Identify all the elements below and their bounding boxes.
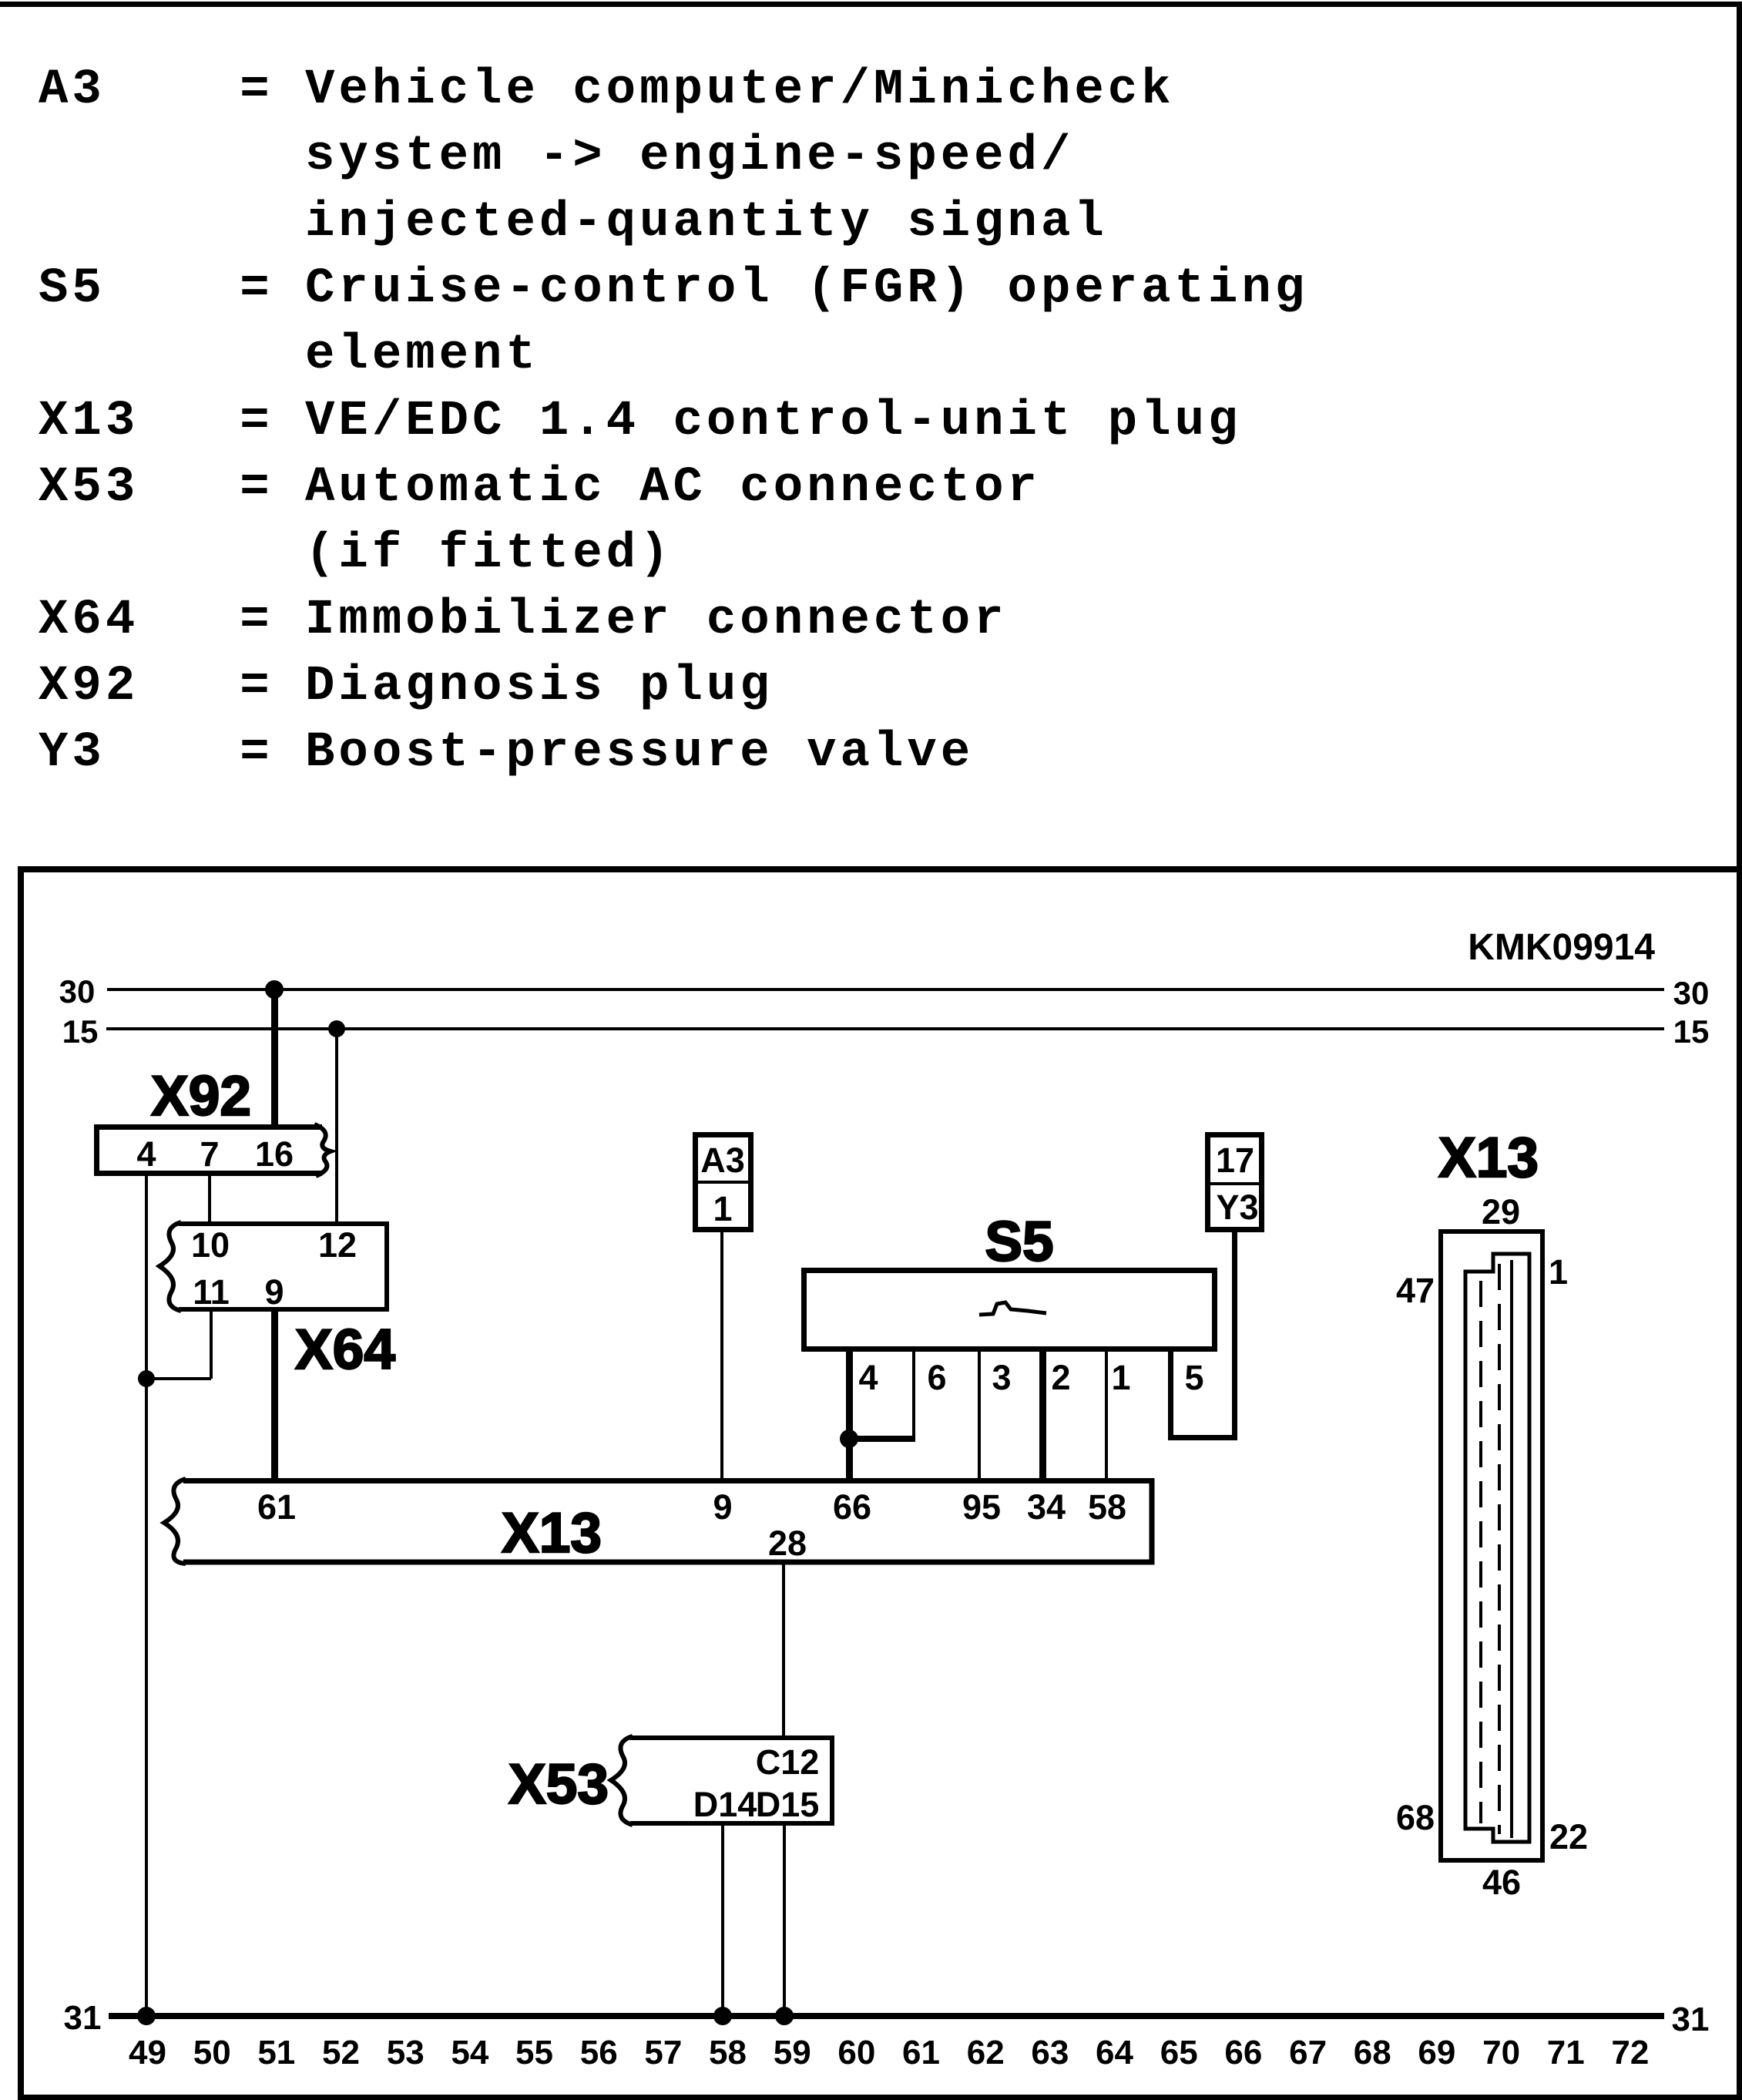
wire X64 pin11 jog left: [146, 1377, 211, 1380]
svg-text:72: 72: [1611, 2034, 1649, 2071]
svg-text:X13: X13: [1438, 1127, 1539, 1189]
svg-text:Cruise-control (FGR) operating: Cruise-control (FGR) operating: [305, 261, 1308, 317]
page top border: [0, 2, 1742, 7]
wire X53 D15 to net31: [783, 1826, 786, 2016]
svg-text:95: 95: [962, 1487, 1001, 1527]
svg-text:69: 69: [1418, 2034, 1455, 2071]
svg-text:=: =: [240, 725, 273, 781]
svg-text:6: 6: [927, 1358, 946, 1397]
svg-text:VE/EDC 1.4 control-unit plug: VE/EDC 1.4 control-unit plug: [305, 394, 1241, 449]
vehicle computer connector A3 box: [696, 1135, 751, 1230]
svg-text:1: 1: [1549, 1252, 1568, 1292]
svg-text:A3: A3: [700, 1141, 745, 1180]
svg-text:58: 58: [1088, 1487, 1126, 1527]
X13 plug inner dashed line B: [1498, 1264, 1501, 1834]
svg-text:X13: X13: [39, 394, 139, 449]
svg-text:D15: D15: [756, 1785, 820, 1824]
svg-text:29: 29: [1482, 1192, 1520, 1231]
svg-text:31: 31: [64, 1999, 102, 2037]
net 15 bus line: [106, 1027, 1664, 1030]
X53 torn left edge: [611, 1736, 633, 1825]
svg-text:(if fitted): (if fitted): [305, 526, 673, 582]
svg-text:59: 59: [774, 2034, 811, 2071]
svg-text:=: =: [240, 460, 273, 516]
wire net30 to X92 pin 16 (thick): [271, 988, 278, 1127]
svg-text:56: 56: [580, 2034, 618, 2071]
wire X53 D14 to net31: [721, 1826, 724, 2016]
X92 box: [97, 1127, 323, 1174]
wire X92 pin7 to X64 pin10: [208, 1176, 211, 1221]
X13 plug inner solid line: [1510, 1260, 1513, 1838]
X13 plug outer outline: [1441, 1231, 1542, 1860]
svg-text:15: 15: [1673, 1013, 1710, 1050]
svg-text:S5: S5: [39, 261, 106, 317]
X13 plug inner keyed outline: [1465, 1254, 1529, 1842]
svg-text:X64: X64: [295, 1319, 395, 1381]
X13 plug inner dashed line A: [1479, 1281, 1482, 1823]
svg-text:68: 68: [1354, 2034, 1391, 2071]
svg-text:10: 10: [191, 1225, 230, 1265]
A3 box divider: [693, 1181, 754, 1184]
svg-text:54: 54: [451, 2034, 488, 2071]
junction dot on net 30: [265, 980, 284, 999]
svg-text:2: 2: [1051, 1358, 1070, 1397]
svg-text:62: 62: [967, 2034, 1005, 2071]
boost-pressure valve connector 17/Y3 box: [1208, 1135, 1262, 1230]
net 30 bus line: [107, 988, 1664, 991]
svg-text:51: 51: [257, 2034, 295, 2071]
svg-text:46: 46: [1482, 1863, 1521, 1902]
svg-text:22: 22: [1549, 1817, 1588, 1856]
svg-text:47: 47: [1396, 1271, 1435, 1310]
svg-text:X53: X53: [39, 460, 139, 516]
S5 pin5 stub (thick): [1168, 1352, 1173, 1440]
svg-text:34: 34: [1027, 1487, 1066, 1527]
S5 pin 4 stub+wire to X13 pin66 (thick): [846, 1352, 853, 1478]
X53 box: [630, 1738, 832, 1823]
svg-text:element: element: [305, 328, 539, 383]
svg-text:12: 12: [318, 1225, 357, 1265]
svg-text:61: 61: [902, 2034, 940, 2071]
wire X64 pin9 to X13 pin61 (thick): [271, 1312, 278, 1478]
net 31 bus line: [109, 2013, 1664, 2019]
svg-text:65: 65: [1160, 2034, 1198, 2071]
svg-text:Y3: Y3: [1216, 1188, 1258, 1227]
S5 switch squiggle: [979, 1302, 1046, 1315]
svg-text:49: 49: [129, 2034, 166, 2071]
svg-text:11: 11: [193, 1272, 230, 1312]
wire A3 pin1 to X13 pin9: [720, 1232, 723, 1478]
svg-text:system -> engine-speed/: system -> engine-speed/: [305, 129, 1074, 184]
svg-text:57: 57: [644, 2034, 682, 2071]
junction dot net31 / X53 D14 wire: [713, 2007, 732, 2025]
wire net15 to X64 pin 12: [335, 1027, 338, 1223]
diagram frame top border: [18, 866, 1742, 872]
svg-text:53: 53: [387, 2034, 425, 2071]
S5 box: [804, 1271, 1215, 1349]
wire Y3 down (thick): [1232, 1232, 1237, 1440]
svg-text:=: =: [240, 62, 273, 118]
svg-text:66: 66: [1224, 2034, 1262, 2071]
junction dot on net 15: [328, 1020, 345, 1037]
svg-text:5: 5: [1184, 1358, 1203, 1397]
junction dot net31 / X53 D15 wire: [775, 2007, 794, 2025]
svg-text:9: 9: [264, 1272, 284, 1312]
svg-text:15: 15: [62, 1013, 99, 1050]
svg-text:=: =: [240, 394, 273, 449]
17/Y3 box divider: [1205, 1182, 1264, 1185]
X64 torn left edge: [159, 1222, 181, 1311]
wire X92 pin4 down to net 31: [145, 1176, 148, 2016]
svg-text:=: =: [240, 261, 273, 317]
svg-text:Automatic AC connector: Automatic AC connector: [305, 460, 1041, 516]
svg-text:KMK09914: KMK09914: [1468, 927, 1655, 968]
svg-text:X92: X92: [151, 1065, 251, 1127]
svg-text:4: 4: [858, 1358, 878, 1397]
svg-text:28: 28: [768, 1524, 807, 1563]
svg-text:=: =: [240, 593, 273, 648]
junction dot net31 / X92 pin4 wire: [137, 2007, 156, 2025]
svg-text:63: 63: [1031, 2034, 1069, 2071]
svg-text:X64: X64: [39, 593, 139, 648]
svg-text:50: 50: [193, 2034, 231, 2071]
svg-text:Diagnosis plug: Diagnosis plug: [305, 659, 774, 714]
svg-text:64: 64: [1096, 2034, 1133, 2071]
svg-text:55: 55: [515, 2034, 553, 2071]
svg-text:injected-quantity signal: injected-quantity signal: [305, 195, 1108, 250]
svg-text:17: 17: [1216, 1141, 1254, 1180]
X13 torn left edge: [164, 1479, 186, 1564]
svg-text:16: 16: [255, 1134, 294, 1174]
S5 pin4-pin6 horizontal wire (thick): [846, 1436, 915, 1442]
svg-text:D14: D14: [693, 1785, 757, 1824]
wire Y3 jog left to S5 pin5 (thick): [1168, 1435, 1237, 1440]
svg-text:67: 67: [1289, 2034, 1327, 2071]
svg-text:31: 31: [1672, 2001, 1710, 2038]
svg-text:30: 30: [1673, 975, 1710, 1011]
X13 control-unit plug box: [183, 1481, 1152, 1563]
svg-text:X53: X53: [509, 1753, 609, 1816]
S5 pin 1 wire to X13 pin58: [1105, 1352, 1108, 1478]
svg-text:A3: A3: [39, 62, 106, 118]
svg-text:7: 7: [200, 1134, 219, 1174]
svg-text:71: 71: [1547, 2034, 1585, 2071]
svg-text:C12: C12: [756, 1742, 820, 1782]
svg-text:Immobilizer connector: Immobilizer connector: [305, 593, 1008, 648]
svg-text:Y3: Y3: [39, 725, 106, 781]
svg-text:30: 30: [59, 973, 96, 1010]
svg-text:58: 58: [709, 2034, 747, 2071]
svg-text:1: 1: [713, 1189, 732, 1228]
junction dot S5 pin4 wire: [840, 1430, 858, 1448]
page bottom border: [18, 2095, 1742, 2100]
junction dot X92pin4 wire / X64 pin11: [138, 1370, 155, 1387]
svg-text:3: 3: [992, 1358, 1011, 1397]
svg-text:X13: X13: [502, 1502, 602, 1564]
svg-text:70: 70: [1482, 2034, 1520, 2071]
wire X13 pin28 to X53: [782, 1564, 785, 1735]
svg-text:=: =: [240, 659, 273, 714]
immobilizer connector X64 box: [179, 1224, 387, 1309]
svg-text:61: 61: [257, 1487, 296, 1527]
wire X64 pin11 down: [210, 1312, 213, 1379]
page right border: [1737, 2, 1742, 2100]
svg-text:66: 66: [833, 1487, 871, 1527]
svg-text:68: 68: [1396, 1798, 1435, 1837]
svg-text:9: 9: [713, 1487, 732, 1527]
S5 pin 2 wire to X13 pin34 (thick): [1039, 1352, 1046, 1478]
svg-text:1: 1: [1111, 1358, 1130, 1397]
svg-text:Boost-pressure valve: Boost-pressure valve: [305, 725, 974, 781]
svg-text:52: 52: [322, 2034, 360, 2071]
diagram frame left border: [18, 866, 24, 2100]
S5 pin 3 wire to X13 pin95: [978, 1352, 981, 1478]
svg-text:60: 60: [837, 2034, 875, 2071]
svg-text:4: 4: [136, 1134, 156, 1174]
svg-text:X92: X92: [39, 659, 139, 714]
svg-text:Vehicle computer/Minicheck: Vehicle computer/Minicheck: [305, 62, 1175, 118]
X92 torn right edge: [314, 1124, 331, 1176]
S5 pin 6 stub: [912, 1352, 915, 1439]
svg-text:S5: S5: [985, 1211, 1053, 1273]
